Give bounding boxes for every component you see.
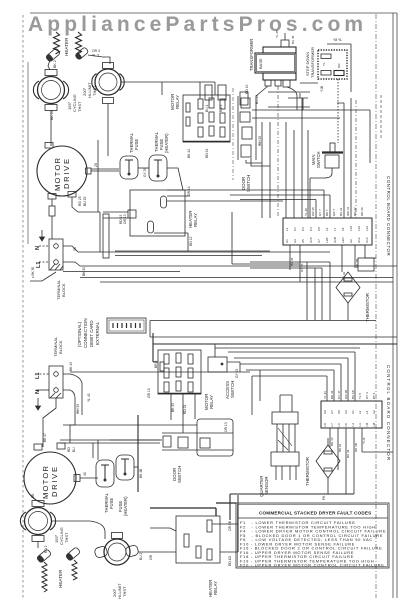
svg-text:BY 4: BY 4	[372, 392, 376, 399]
svg-text:U9: U9	[323, 410, 327, 414]
svg-text:U15: U15	[309, 237, 313, 243]
200 label lower	[112, 583, 127, 599]
svg-text:L5: L5	[344, 423, 348, 427]
svg-text:BK 44: BK 44	[187, 149, 191, 158]
thermistor label upper	[365, 293, 370, 322]
svg-text:GY 29: GY 29	[143, 168, 147, 177]
svg-text:RELAY: RELAY	[209, 395, 214, 409]
svg-text:L2D: L2D	[341, 237, 345, 243]
mid bus wires	[63, 272, 393, 283]
wire labels below relay lower	[171, 403, 187, 414]
svg-text:RELAY: RELAY	[213, 581, 218, 595]
fault table rows	[240, 520, 386, 568]
wires below connector	[290, 245, 376, 282]
debit card connector	[107, 318, 146, 333]
wire labels RD25 BU25 under motor	[78, 196, 87, 206]
wire label BR 9	[154, 361, 158, 368]
svg-text:THERMISTOR: THERMISTOR	[365, 293, 370, 322]
wire labels right of heater relay	[228, 520, 232, 566]
motor relay label small	[207, 427, 212, 428]
svg-text:U2: U2	[372, 410, 376, 414]
svg-text:THERMISTOR: THERMISTOR	[305, 457, 310, 486]
bus wires below heater relay	[115, 251, 270, 256]
heater relay label upper	[188, 211, 198, 228]
label L1 upper	[36, 261, 42, 268]
heater label upper	[64, 37, 69, 56]
bus wires above lower motor	[60, 440, 160, 460]
wire labels below connector	[290, 257, 359, 280]
motor relay lower box	[158, 350, 201, 394]
transformer body	[255, 47, 296, 80]
wire label BK 25	[50, 110, 54, 120]
watermark AppliancePartsPros.com	[28, 13, 367, 36]
heater label lower	[58, 569, 63, 588]
svg-text:RD 12: RD 12	[189, 236, 193, 246]
dark wire y494	[230, 494, 354, 520]
wire v98 upper	[97, 140, 99, 212]
svg-text:L1: L1	[285, 227, 289, 231]
dark wire y508	[150, 508, 216, 516]
wire sensor top	[280, 395, 292, 412]
svg-text:EXTERNAL: EXTERNAL	[95, 321, 100, 345]
svg-text:RD: RD	[67, 447, 71, 452]
wire thermistor upper bottom	[347, 303, 349, 320]
svg-text:CONTROL BOARD CONNECTOR: CONTROL BOARD CONNECTOR	[386, 176, 391, 256]
wire label BK 43 top	[69, 362, 73, 371]
wire between fuses	[138, 167, 149, 169]
svg-text:DRIVE: DRIVE	[62, 157, 71, 189]
svg-text:L4: L4	[351, 423, 355, 427]
wire v351	[350, 98, 352, 218]
svg-text:SWITCH: SWITCH	[246, 175, 251, 192]
main switch plunger	[310, 143, 343, 218]
wire labels PU RD	[139, 553, 153, 560]
hi-limit capsule right	[125, 545, 139, 558]
thermistor upper	[336, 272, 360, 303]
svg-text:BR 44: BR 44	[330, 390, 334, 399]
door switch upper	[238, 96, 256, 160]
svg-text:BK 43: BK 43	[171, 403, 175, 412]
svg-text:GY 22: GY 22	[235, 369, 239, 378]
wire motor right to fuse	[91, 169, 119, 171]
svg-text:HEATER: HEATER	[64, 37, 69, 56]
drive motor lower text	[41, 465, 59, 499]
heater coil lower	[42, 562, 47, 592]
svg-text:U8: U8	[372, 422, 376, 426]
svg-text:BU 33: BU 33	[339, 207, 343, 216]
thermal fuse upper left	[120, 156, 138, 179]
svg-text:BU 25: BU 25	[83, 196, 87, 206]
label x BK 30	[31, 267, 35, 278]
155 cycling thst label upper	[67, 94, 82, 112]
heater terminal capsule lower right	[65, 547, 80, 561]
wire label GY 29	[143, 168, 147, 177]
thermal fuse label upper	[129, 132, 139, 153]
svg-text:BU 2: BU 2	[139, 553, 143, 560]
wire heater relay right to connector	[167, 196, 283, 201]
small box left of heater relay	[103, 214, 109, 258]
svg-text:RD 24: RD 24	[205, 148, 209, 158]
fault codes table	[236, 503, 389, 568]
wire L1 dashed	[39, 261, 49, 263]
svg-text:U5: U5	[337, 410, 341, 414]
svg-text:C1: C1	[293, 227, 297, 231]
label N upper	[35, 246, 41, 250]
svg-text:RELAY: RELAY	[193, 213, 198, 227]
fault table title	[259, 511, 371, 516]
svg-text:BK 42: BK 42	[338, 443, 342, 452]
border frame right	[393, 13, 397, 598]
drive motor lower	[24, 443, 80, 504]
wire block right top	[63, 246, 330, 252]
svg-text:U7: U7	[317, 239, 321, 243]
wire label OR 10	[224, 422, 228, 432]
wire bus H118	[252, 117, 340, 119]
svg-text:RD 25: RD 25	[78, 196, 82, 206]
svg-text:YL 40: YL 40	[304, 208, 308, 216]
wire fuse to v138	[134, 466, 138, 468]
wire labels at 155 lower	[31, 493, 48, 553]
wire N lower	[36, 389, 49, 391]
svg-text:C4: C4	[309, 227, 313, 231]
svg-text:RELAY: RELAY	[175, 95, 180, 109]
svg-text:YL: YL	[322, 62, 326, 66]
svg-text:U5: U5	[301, 239, 305, 243]
svg-text:L12: L12	[365, 226, 369, 231]
svg-text:GY 4: GY 4	[365, 392, 369, 399]
svg-text:BK 7: BK 7	[325, 209, 329, 216]
svg-text:BK: BK	[31, 493, 35, 498]
transformer label	[249, 39, 254, 71]
svg-text:L3: L3	[358, 423, 362, 427]
terminal block lower	[49, 366, 63, 398]
wire heater relay bottom out	[154, 233, 188, 251]
svg-text:HEATER: HEATER	[58, 569, 63, 588]
svg-text:48: 48	[83, 472, 87, 476]
svg-text:OR 13: OR 13	[123, 214, 127, 224]
wire labels below lower connector	[330, 437, 366, 458]
dark wire y503	[216, 502, 236, 504]
terminal block upper	[49, 239, 63, 270]
wire v356 dashdot	[355, 100, 357, 218]
svg-text:BLOCK: BLOCK	[61, 283, 66, 297]
svg-text:GR 7: GR 7	[332, 209, 336, 216]
wires door switch down	[246, 158, 270, 166]
svg-text:BU 1B: BU 1B	[351, 390, 355, 399]
svg-text:BU 45: BU 45	[291, 35, 295, 44]
wire feeders above connector	[167, 190, 330, 218]
svg-text:C3: C3	[301, 227, 305, 231]
wire N dashed	[39, 245, 49, 247]
heater coil upper left	[54, 32, 60, 54]
wire 200 bottom down	[107, 104, 109, 157]
wire 155 to motor	[50, 111, 52, 147]
svg-text:F20 - UPPER DRYER MOTOR CONTRO: F20 - UPPER DRYER MOTOR CONTROL CIRCUIT …	[240, 563, 385, 568]
wire label BK 2	[53, 60, 57, 68]
svg-text:CONTROL BOARD CONNECTOR: CONTROL BOARD CONNECTOR	[386, 365, 391, 461]
svg-text:OR 10: OR 10	[224, 422, 228, 432]
wire labels above connector	[304, 207, 364, 217]
ground symbol upper	[40, 230, 45, 241]
svg-text:RD 44: RD 44	[330, 437, 334, 446]
wire labels RD13 OR13	[119, 214, 127, 224]
wire access switch top	[215, 344, 240, 372]
wire label RD10	[245, 84, 249, 94]
wire label WH 30 lower	[76, 404, 80, 414]
svg-text:WH 30: WH 30	[76, 404, 80, 414]
thermistor lower	[316, 445, 340, 478]
svg-text:RD 3B: RD 3B	[354, 443, 358, 452]
svg-text:GY 7: GY 7	[318, 209, 322, 216]
wires under transformer right	[268, 93, 310, 110]
svg-text:BU 42: BU 42	[346, 449, 350, 458]
external debit card text	[77, 318, 100, 348]
svg-text:SWITCH: SWITCH	[230, 381, 235, 398]
svg-text:(OPTIONAL): (OPTIONAL)	[77, 321, 82, 347]
200 hi-limit thermostat upper	[92, 63, 124, 104]
svg-text:Y1B: Y1B	[320, 85, 324, 92]
wire L1 lower dashed	[36, 373, 49, 375]
wire labels RD BU lower motor	[67, 447, 76, 452]
main switch label	[311, 151, 321, 168]
label N lower	[35, 390, 41, 394]
terminal block lower label	[53, 336, 63, 357]
control board connector lower	[321, 401, 382, 428]
door switch lower	[162, 419, 233, 456]
wire labels above lower connector	[323, 390, 376, 399]
svg-text:RD 4: RD 4	[219, 104, 223, 112]
svg-text:L1B: L1B	[325, 238, 329, 243]
155 label lower	[54, 527, 69, 545]
transformer top pin	[281, 33, 289, 47]
wire v238	[237, 495, 239, 552]
wire v153	[153, 333, 158, 362]
svg-text:BU 4: BU 4	[205, 105, 209, 112]
svg-text:TRANSFORMER: TRANSFORMER	[249, 39, 254, 71]
svg-text:L4: L4	[365, 410, 369, 414]
bus wires lower mid	[63, 425, 197, 440]
svg-text:BLOCK: BLOCK	[58, 340, 63, 354]
transformer base text	[258, 58, 263, 69]
wire block right bottom	[63, 262, 397, 266]
svg-text:BK 2: BK 2	[53, 60, 57, 68]
wires into heater relay lower	[150, 524, 238, 552]
quarter sensor	[271, 412, 299, 480]
svg-text:U3: U3	[344, 410, 348, 414]
wire labels OR3 YL3	[92, 49, 100, 58]
wire step down bottom	[300, 82, 318, 84]
wire label BU 25	[94, 163, 98, 167]
svg-text:N: N	[35, 390, 41, 394]
wire block to motor	[43, 398, 56, 447]
wires fanning to connector	[262, 98, 308, 218]
control board connector text upper	[386, 176, 391, 256]
wire v232	[232, 212, 300, 264]
dash wire from transformer	[277, 86, 279, 218]
quarter sensor label	[259, 476, 269, 497]
svg-text:U12: U12	[357, 237, 361, 243]
svg-text:x BK 30: x BK 30	[31, 267, 35, 278]
wire label GY 22	[235, 369, 239, 378]
label Y8 YL	[333, 38, 342, 42]
wire label RD 33	[73, 247, 77, 251]
svg-text:RD 4D: RD 4D	[228, 555, 232, 566]
svg-text:FUSE: FUSE	[109, 498, 114, 509]
wire capsule right to hi-limit	[88, 55, 110, 64]
wire hi-limit to motor relay top	[162, 82, 215, 99]
svg-text:U1: U1	[285, 239, 289, 243]
wire label WH30	[258, 136, 262, 146]
control board connector upper	[283, 218, 372, 245]
ground symbol lower	[36, 398, 41, 410]
wire hi-limit to heater relay	[138, 551, 176, 553]
heater terminal capsule left	[45, 48, 60, 62]
svg-text:THST: THST	[77, 101, 82, 112]
wire label YL 43	[87, 393, 91, 402]
wire block bottom diag	[30, 272, 56, 281]
svg-text:FUSE: FUSE	[134, 139, 139, 150]
svg-text:U14: U14	[365, 237, 369, 243]
svg-text:25: 25	[94, 163, 98, 167]
svg-text:N: N	[35, 246, 41, 250]
svg-text:SENSOR: SENSOR	[264, 476, 269, 495]
wire label BU44	[255, 95, 259, 104]
svg-text:YL 5: YL 5	[358, 393, 362, 399]
svg-text:THST: THST	[64, 532, 69, 543]
step down labels inside	[322, 62, 341, 68]
svg-text:GR 15: GR 15	[147, 388, 151, 398]
svg-text:RD 39: RD 39	[360, 207, 364, 216]
labels under transformer	[205, 104, 223, 112]
svg-text:L1: L1	[35, 372, 41, 379]
wires below relay lower	[171, 394, 195, 433]
svg-text:U2: U2	[349, 239, 353, 243]
hi-limit capsule left	[94, 546, 108, 559]
svg-text:YL 45: YL 45	[275, 30, 279, 38]
bus y320	[150, 321, 397, 338]
svg-text:CONNECTION: CONNECTION	[83, 318, 88, 348]
control board connector text lower	[386, 365, 391, 461]
svg-text:U3: U3	[293, 239, 297, 243]
border frame inner right dash-dot	[375, 14, 377, 598]
transformer pin wires	[256, 86, 310, 110]
svg-text:(HEATER): (HEATER)	[123, 496, 128, 516]
wire v138	[137, 415, 139, 492]
svg-text:TRANSFORMER: TRANSFORMER	[310, 47, 315, 78]
bus y344	[153, 343, 397, 345]
155 cycling thermostat upper	[33, 70, 68, 111]
svg-text:L8: L8	[323, 423, 327, 427]
terminal block label upper	[56, 279, 66, 300]
wire label PK 1	[322, 493, 326, 500]
step down transformer box	[318, 50, 347, 79]
wire right fuse to heater relay	[167, 168, 183, 190]
wires below connector to bus	[250, 262, 330, 320]
svg-text:L7: L7	[330, 423, 334, 427]
connector lower pin labels row2	[323, 422, 376, 426]
svg-text:SWITCH: SWITCH	[316, 151, 321, 168]
door switch label upper	[241, 175, 251, 192]
svg-text:BR 9: BR 9	[154, 361, 158, 368]
heater relay lower label	[208, 580, 218, 597]
wire left edge vertical	[27, 62, 29, 244]
wire label GR 15	[147, 388, 151, 398]
200 hi-limit label upper	[82, 82, 97, 98]
svg-text:DRIVE: DRIVE	[50, 465, 59, 497]
access switch	[208, 357, 227, 372]
svg-text:L7: L7	[333, 227, 337, 231]
wire motor lower right	[80, 477, 98, 479]
dotted wire to main switch	[337, 79, 339, 143]
wire 155 right to hi-limit	[52, 521, 106, 539]
svg-text:WH 30: WH 30	[258, 136, 262, 146]
label Y1B	[320, 85, 324, 92]
svg-text:RD 2: RD 2	[44, 545, 48, 553]
svg-text:YL 43: YL 43	[87, 393, 91, 402]
motor relay lower label	[204, 394, 214, 410]
step down transformer label	[305, 47, 315, 78]
wire label BK 47	[43, 433, 47, 442]
thermistor lower label	[305, 457, 310, 486]
wire L1 out right	[63, 372, 250, 415]
svg-text:THST: THST	[92, 85, 97, 96]
svg-text:RD 24: RD 24	[183, 404, 187, 414]
border frame top	[30, 12, 397, 14]
svg-text:OR 4B: OR 4B	[344, 390, 348, 399]
wire step down top right	[327, 44, 351, 92]
wire 155 to heater lower	[37, 542, 39, 549]
dash-dot divider	[232, 88, 234, 180]
svg-text:Y8 YL: Y8 YL	[333, 38, 342, 42]
svg-text:YL B: YL B	[362, 438, 366, 444]
svg-text:OR 9B: OR 9B	[228, 520, 232, 531]
drive motor upper	[37, 143, 91, 200]
svg-text:BK 4B: BK 4B	[139, 468, 143, 478]
border frame left (dashed)	[22, 15, 24, 598]
svg-text:BK 43: BK 43	[69, 362, 73, 371]
svg-text:C5: C5	[317, 227, 321, 231]
heater terminal capsule lower left	[36, 549, 51, 563]
bus y348	[215, 347, 360, 349]
svg-text:U5: U5	[365, 422, 369, 426]
wire label GR14	[187, 186, 191, 196]
svg-text:COMMERCIAL STACKED DRYER FAULT: COMMERCIAL STACKED DRYER FAULT CODES	[259, 511, 371, 516]
wire v344	[337, 103, 344, 218]
svg-text:L6: L6	[325, 227, 329, 231]
svg-text:L18: L18	[349, 226, 353, 231]
svg-text:BU: BU	[72, 447, 76, 452]
wire labels BK44 RD24 below relay	[187, 148, 209, 158]
wire capsule left down	[48, 60, 50, 70]
svg-text:MOTOR: MOTOR	[41, 465, 50, 499]
wire v381 dashes	[380, 95, 382, 140]
thermal fuse lower labels	[104, 492, 128, 516]
wire motor bottom left down	[49, 199, 55, 239]
heater coil lower right	[72, 560, 77, 580]
svg-text:U1B: U1B	[333, 237, 337, 243]
thermal fuse lower right	[116, 455, 134, 480]
wire label BU 48	[83, 472, 87, 476]
svg-text:RD 32: RD 32	[353, 207, 357, 216]
svg-text:YL 44: YL 44	[323, 391, 327, 399]
thermistor upper box	[358, 258, 374, 271]
wire thermistor lower top	[327, 438, 329, 494]
svg-text:L1: L1	[36, 261, 42, 268]
heater coil upper right	[76, 32, 82, 54]
155 cycling thermostat lower	[20, 501, 55, 542]
small relay boxes under transformer	[205, 85, 248, 105]
wire fan to lower connector	[228, 352, 355, 415]
